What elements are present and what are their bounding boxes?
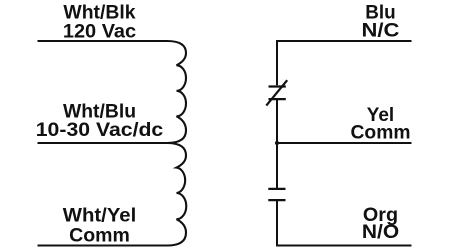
svg-text:Comm: Comm xyxy=(351,122,411,144)
svg-text:10-30 Vac/dc: 10-30 Vac/dc xyxy=(36,119,164,141)
svg-text:N/C: N/C xyxy=(362,20,400,42)
svg-text:Comm: Comm xyxy=(69,225,130,247)
svg-text:120 Vac: 120 Vac xyxy=(63,20,136,42)
svg-text:N/O: N/O xyxy=(362,221,399,243)
svg-text:Wht/Yel: Wht/Yel xyxy=(63,205,137,227)
